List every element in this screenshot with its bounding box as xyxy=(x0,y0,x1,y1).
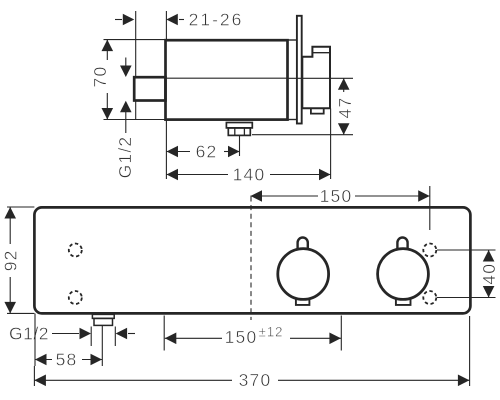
left screw hole bottom (dashed) xyxy=(69,291,82,304)
extension line nut-centre xyxy=(239,136,241,156)
dimension 140 xyxy=(167,165,331,185)
label G1/2 (front view) + port arrows xyxy=(9,324,135,347)
extension line body-left xyxy=(165,11,167,179)
wall plate xyxy=(297,16,302,124)
svg-text:58: 58 xyxy=(56,350,78,370)
dimension 58 xyxy=(35,314,102,370)
svg-text:G1/2: G1/2 xyxy=(115,136,135,179)
svg-text:62: 62 xyxy=(196,142,218,162)
extension line handle-right xyxy=(330,109,332,180)
dimension 70 xyxy=(90,40,166,120)
svg-text:370: 370 xyxy=(239,370,272,390)
bottom outlet port xyxy=(92,314,114,325)
svg-text:150: 150 xyxy=(320,186,353,206)
dimension 150±12 xyxy=(164,316,341,351)
body mid joint line xyxy=(166,77,288,79)
dimension 370 xyxy=(34,316,469,390)
face panel xyxy=(34,207,470,313)
left knob xyxy=(278,238,329,305)
left screw hole top (dashed) xyxy=(69,244,82,257)
svg-text:140: 140 xyxy=(233,165,266,185)
dashed centreline left connection xyxy=(250,197,252,321)
svg-text:±12: ±12 xyxy=(259,325,284,340)
svg-text:92: 92 xyxy=(0,249,20,271)
right screw hole bottom (dashed) xyxy=(423,291,436,304)
dimension 40 xyxy=(437,250,499,298)
handle (side) xyxy=(302,47,330,114)
outlet nut xyxy=(226,123,252,136)
dimension 92 xyxy=(0,207,34,313)
svg-text:40: 40 xyxy=(479,263,499,285)
dimension spout diameter (G1/2) xyxy=(120,58,132,134)
svg-text:150: 150 xyxy=(225,327,258,347)
dimension 21-26 xyxy=(115,10,243,30)
svg-text:47: 47 xyxy=(335,97,355,119)
svg-text:70: 70 xyxy=(90,66,110,88)
svg-text:21-26: 21-26 xyxy=(189,10,244,30)
right screw hole top (dashed) xyxy=(423,244,436,257)
svg-text:G1/2: G1/2 xyxy=(9,324,49,344)
dimension 47 xyxy=(252,78,355,134)
extension line spout-left xyxy=(135,11,137,120)
dimension 150 (top of front view) xyxy=(251,186,430,230)
right knob xyxy=(378,238,429,305)
mixer body xyxy=(166,40,297,120)
spout stub xyxy=(134,77,165,100)
dimension 62 xyxy=(167,142,240,162)
